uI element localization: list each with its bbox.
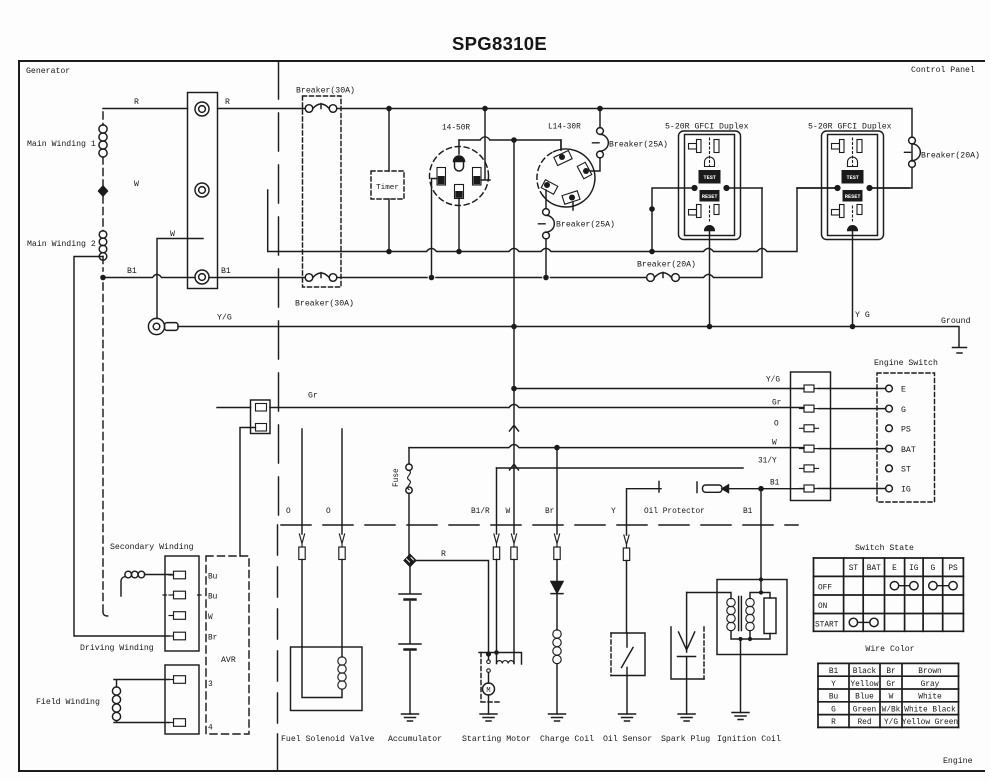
svg-text:Blue: Blue — [855, 694, 874, 702]
svg-text:Ground: Ground — [941, 316, 971, 326]
svg-text:Fuse: Fuse — [393, 468, 401, 487]
svg-text:Oil Sensor: Oil Sensor — [603, 734, 652, 744]
svg-text:Accumulator: Accumulator — [388, 734, 442, 744]
svg-text:Breaker(25A): Breaker(25A) — [556, 220, 615, 230]
svg-text:Main Winding 2: Main Winding 2 — [27, 239, 96, 249]
svg-text:PS: PS — [901, 426, 911, 435]
svg-text:Y/G: Y/G — [217, 313, 232, 323]
svg-text:Red: Red — [857, 719, 871, 727]
svg-text:IG: IG — [909, 565, 919, 573]
svg-text:Green: Green — [853, 706, 876, 714]
svg-text:Black: Black — [853, 668, 877, 676]
svg-text:ST: ST — [849, 565, 859, 573]
svg-text:IG: IG — [901, 486, 911, 495]
svg-text:OFF: OFF — [818, 585, 832, 593]
svg-text:B1/R: B1/R — [471, 508, 490, 516]
svg-text:31/Y: 31/Y — [758, 458, 777, 466]
svg-text:Engine Switch: Engine Switch — [874, 358, 938, 368]
svg-text:G: G — [931, 565, 936, 573]
svg-text:Driving Winding: Driving Winding — [80, 643, 154, 653]
svg-text:5-20R GFCI Duplex: 5-20R GFCI Duplex — [808, 122, 892, 132]
svg-text:3: 3 — [208, 681, 213, 689]
svg-text:Y: Y — [611, 508, 616, 516]
svg-text:W: W — [170, 230, 175, 239]
svg-text:Brown: Brown — [918, 668, 941, 676]
svg-text:BAT: BAT — [867, 565, 881, 573]
svg-text:Bu: Bu — [208, 574, 218, 582]
svg-text:Charge Coil: Charge Coil — [540, 734, 594, 744]
svg-text:White: White — [918, 694, 942, 702]
svg-text:M: M — [486, 687, 490, 695]
svg-text:BAT: BAT — [901, 446, 916, 455]
svg-text:W: W — [134, 180, 139, 189]
svg-text:O: O — [326, 508, 331, 516]
svg-text:W: W — [506, 508, 511, 516]
svg-text:Yellow Green: Yellow Green — [902, 719, 958, 727]
svg-text:4: 4 — [208, 725, 213, 733]
svg-text:Bu: Bu — [829, 694, 839, 702]
svg-text:Gray: Gray — [921, 681, 940, 689]
svg-text:Secondary Winding: Secondary Winding — [110, 542, 194, 552]
svg-text:TEST: TEST — [846, 175, 858, 181]
svg-text:Y G: Y G — [855, 311, 870, 320]
svg-text:Breaker(20A): Breaker(20A) — [637, 260, 696, 270]
svg-text:L14-30R: L14-30R — [548, 124, 581, 132]
svg-text:G: G — [901, 406, 906, 415]
svg-text:Spark Plug: Spark Plug — [661, 734, 710, 744]
svg-text:W: W — [772, 440, 777, 448]
svg-text:ON: ON — [818, 603, 828, 611]
svg-text:START: START — [815, 622, 839, 630]
svg-text:Y: Y — [831, 681, 836, 689]
svg-text:Generator: Generator — [26, 67, 70, 76]
svg-text:ST: ST — [901, 466, 911, 475]
svg-text:B1: B1 — [829, 668, 839, 676]
svg-text:14-50R: 14-50R — [442, 125, 470, 133]
svg-text:B1: B1 — [770, 480, 780, 488]
svg-text:W: W — [889, 694, 894, 702]
svg-text:Breaker(20A): Breaker(20A) — [921, 151, 980, 161]
svg-text:Starting Motor: Starting Motor — [462, 734, 531, 744]
svg-text:R: R — [225, 98, 230, 107]
svg-text:Timer: Timer — [376, 184, 399, 192]
svg-text:O: O — [286, 508, 291, 516]
svg-text:O: O — [774, 421, 779, 429]
svg-text:W/Bk: W/Bk — [882, 706, 901, 714]
svg-text:Breaker(30A): Breaker(30A) — [296, 86, 355, 96]
svg-text:RESET: RESET — [702, 194, 718, 200]
svg-text:Y/G: Y/G — [766, 377, 780, 385]
svg-text:E: E — [901, 386, 906, 395]
svg-text:R: R — [441, 550, 446, 559]
svg-text:B1: B1 — [221, 267, 231, 276]
svg-text:RESET: RESET — [845, 194, 861, 200]
svg-text:W: W — [208, 614, 213, 622]
svg-text:E: E — [892, 565, 897, 573]
svg-text:Main Winding 1: Main Winding 1 — [27, 139, 96, 149]
svg-text:AVR: AVR — [221, 656, 236, 665]
svg-text:Wire Color: Wire Color — [865, 644, 914, 654]
svg-text:SPG8310E: SPG8310E — [452, 33, 547, 54]
svg-text:G: G — [831, 706, 836, 714]
svg-text:Breaker(25A): Breaker(25A) — [609, 140, 668, 150]
svg-text:Ignition Coil: Ignition Coil — [717, 734, 781, 744]
svg-text:Control Panel: Control Panel — [911, 65, 975, 75]
svg-text:B1: B1 — [127, 267, 137, 276]
svg-text:Y/G: Y/G — [884, 719, 898, 727]
svg-text:R: R — [134, 98, 139, 107]
svg-text:Bu: Bu — [208, 594, 218, 602]
svg-text:Field Winding: Field Winding — [36, 697, 100, 707]
svg-text:5-20R GFCI Duplex: 5-20R GFCI Duplex — [665, 122, 749, 132]
svg-text:Br: Br — [545, 508, 554, 516]
svg-text:Yellow: Yellow — [850, 681, 878, 689]
svg-text:R: R — [831, 719, 836, 727]
svg-text:Switch State: Switch State — [855, 543, 914, 553]
svg-text:B1: B1 — [743, 508, 753, 516]
svg-text:TEST: TEST — [703, 175, 715, 181]
svg-text:Gr: Gr — [772, 400, 781, 408]
svg-text:Fuel Solenoid Valve: Fuel Solenoid Valve — [281, 734, 374, 744]
svg-text:Engine: Engine — [943, 756, 973, 766]
svg-text:PS: PS — [948, 565, 958, 573]
svg-text:Gr: Gr — [308, 392, 318, 401]
svg-text:Br: Br — [886, 668, 895, 676]
svg-text:White Black: White Black — [904, 706, 956, 714]
svg-text:Oil Protector: Oil Protector — [644, 508, 705, 516]
svg-text:Gr: Gr — [886, 681, 895, 689]
svg-text:Breaker(30A): Breaker(30A) — [295, 299, 354, 309]
svg-text:Br: Br — [208, 635, 217, 643]
